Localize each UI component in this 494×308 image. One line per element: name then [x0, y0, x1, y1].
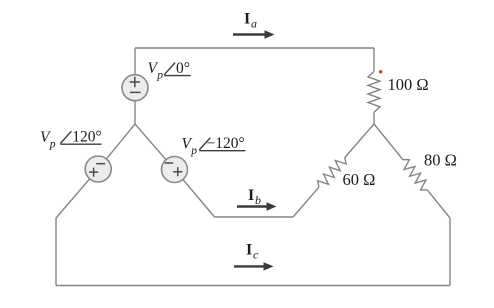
source V1 plus: [130, 77, 140, 87]
resistor R 80ohm: [403, 160, 427, 190]
arrow Ia: [233, 30, 275, 38]
source V2 plus: [89, 168, 98, 177]
svg-text:b: b: [255, 193, 261, 207]
source V3 minus: [165, 162, 174, 164]
svg-text:0°: 0°: [176, 60, 190, 77]
source V1 minus: [130, 91, 141, 93]
svg-text:120°: 120°: [72, 128, 101, 145]
source V2 minus: [96, 163, 105, 165]
wire left vertical: [55, 218, 57, 286]
wire right drop to R1: [373, 48, 375, 72]
source V2 Vp/120 circle: [85, 156, 111, 182]
wire R80 to right corner: [427, 190, 450, 218]
svg-text:p: p: [156, 70, 163, 82]
svg-text:p: p: [49, 139, 56, 151]
wire bottom horizontal: [56, 285, 450, 287]
label Vp/0: [148, 60, 191, 82]
svg-text:I: I: [244, 11, 250, 28]
wire top horizontal: [135, 47, 374, 49]
wire delta node to R80: [374, 124, 403, 160]
resistor R 60ohm: [318, 158, 347, 188]
wire middle to R60: [293, 187, 319, 217]
wire top source lower lead to Y node: [134, 101, 136, 124]
arrow Ib: [237, 202, 277, 210]
wire top source upper lead: [134, 48, 136, 75]
label current Ib: [248, 187, 261, 207]
svg-text:80 Ω: 80 Ω: [424, 151, 457, 170]
source V1 Vp/0 circle: [122, 75, 148, 101]
label Vp/120: [40, 128, 102, 150]
svg-text:60 Ω: 60 Ω: [343, 170, 376, 189]
svg-text:a: a: [251, 17, 257, 31]
svg-text:100 Ω: 100 Ω: [388, 75, 429, 94]
label current Ic: [246, 242, 259, 262]
wire right vertical: [449, 218, 451, 286]
arrow Ic: [234, 262, 274, 270]
source V3 Vp/-120 circle: [162, 157, 188, 183]
wire R60 to delta node: [345, 124, 374, 158]
wire Y node to left source: [106, 124, 135, 159]
svg-text:c: c: [253, 248, 259, 262]
wire Y node to right source: [135, 124, 166, 160]
svg-text:p: p: [190, 145, 197, 157]
label Vp/-120: [182, 135, 246, 157]
resistor R 100ohm: [368, 72, 380, 113]
wire right source to middle wire: [183, 179, 215, 217]
wire R1 bottom to delta node: [373, 112, 375, 124]
red dot node: [379, 70, 382, 73]
wire middle horizontal Ib: [215, 216, 294, 218]
svg-text:I: I: [246, 242, 252, 259]
wire left source to bottom-left corner: [56, 179, 90, 218]
source V3 plus: [173, 167, 182, 176]
svg-text:I: I: [248, 187, 254, 204]
label current Ia: [244, 11, 257, 31]
svg-text:−120°: −120°: [207, 135, 245, 152]
